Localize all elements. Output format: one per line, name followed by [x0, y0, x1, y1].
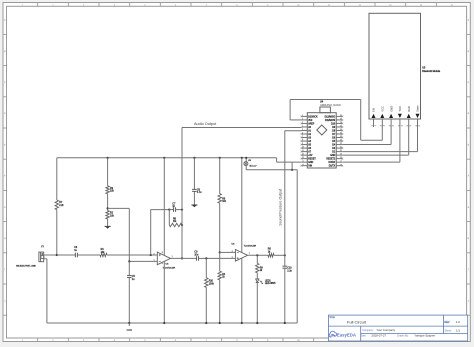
svg-text:Sound Pressure Output: Sound Pressure Output: [278, 189, 282, 226]
wire opamp1 V- pin4: [163, 262, 165, 324]
wire minus node to opamp2: [220, 251, 236, 253]
ground arrow divider: [105, 226, 111, 228]
svg-text:20: 20: [340, 150, 342, 152]
svg-text:2.2n: 2.2n: [287, 270, 292, 272]
svg-text:7: 7: [206, 340, 207, 342]
svg-text:1/1: 1/1: [456, 328, 460, 332]
junction loop right top: [181, 209, 183, 211]
wire C8 to gnd arrow: [193, 191, 195, 205]
op-amp U6B TLC072CDR: [232, 244, 257, 262]
svg-text:2: 2: [381, 125, 383, 126]
svg-text:3: 3: [393, 125, 395, 126]
wire opamp1 out to C9: [171, 257, 197, 259]
svg-text:8: 8: [237, 5, 238, 7]
capacitor C7: [169, 203, 182, 212]
junction jack row: [291, 169, 293, 171]
svg-text:5: 5: [145, 5, 146, 7]
wire C5 to gnd bus: [128, 278, 130, 324]
junction R9 node: [256, 254, 258, 256]
wire mic node to C6: [57, 254, 76, 256]
svg-text:Bluetooth Module: Bluetooth Module: [422, 70, 441, 73]
wire C6 to R4: [77, 254, 100, 256]
wire loop left vertical: [168, 210, 170, 225]
resistor R2: [106, 211, 115, 220]
svg-text:TXD: TXD: [398, 106, 402, 111]
svg-text:D12/MISO: D12/MISO: [325, 116, 336, 118]
wire R4 to opamp1 +: [107, 254, 157, 256]
svg-text:D11/MOSI: D11/MOSI: [325, 120, 336, 122]
svg-text:D13/SCK: D13/SCK: [308, 116, 318, 118]
junction minus node: [219, 251, 221, 253]
svg-text:10: 10: [297, 340, 299, 342]
wire R5 to minus node: [219, 203, 221, 252]
svg-text:J: J: [468, 300, 469, 302]
resistor R7: [55, 200, 64, 210]
svg-text:14: 14: [302, 161, 304, 163]
junction gnd bus r1: [219, 322, 221, 324]
wire BT State to D2: [342, 127, 417, 152]
svg-text:Sheet:: Sheet:: [445, 329, 453, 332]
junction opamp1 output: [181, 257, 183, 259]
svg-text:17: 17: [340, 161, 342, 163]
op-amp U6A TLC072CDR: [154, 252, 176, 269]
label Audio Output: [194, 122, 217, 126]
resistor R4: [100, 249, 107, 257]
ground symbol GND: [127, 323, 133, 332]
svg-text:GND: GND: [330, 155, 335, 157]
wire gnd drop from arduino: [291, 162, 293, 170]
resistor R9: [256, 263, 264, 272]
svg-text:GND: GND: [127, 329, 133, 332]
svg-text:6: 6: [416, 125, 418, 126]
svg-text:+5V: +5V: [308, 155, 313, 157]
svg-text:1.0: 1.0: [456, 320, 460, 324]
wire 3v3 loop: [290, 100, 382, 141]
ground arrow C8: [191, 205, 197, 207]
svg-text:Date:: Date:: [360, 335, 366, 338]
svg-text:1: 1: [22, 5, 23, 7]
junction node A: [205, 257, 207, 259]
svg-text:4.7u: 4.7u: [197, 192, 202, 194]
microphone Y1 MICELECTRET_SMD: [16, 247, 44, 268]
wire R9 node down: [256, 255, 258, 263]
svg-text:LED1: LED1: [265, 280, 272, 282]
svg-text:22: 22: [340, 143, 342, 145]
svg-text:MICELECTRET_SMD: MICELECTRET_SMD: [16, 265, 36, 267]
svg-text:RESET: RESET: [308, 159, 316, 161]
wire mic top pin: [44, 254, 57, 256]
LED LED1 LED-0805: [256, 279, 276, 285]
capacitor C10: [283, 266, 293, 272]
wire bus to R3: [107, 158, 109, 186]
wire R10 to gnd bus: [205, 288, 207, 324]
resistor R1: [218, 271, 226, 280]
svg-text:BU-4-?: BU-4-?: [250, 165, 258, 167]
svg-text:2: 2: [53, 340, 54, 342]
wire +node up: [151, 210, 170, 255]
svg-text:RXD: RXD: [407, 106, 411, 112]
svg-text:3: 3: [83, 5, 84, 7]
svg-text:100k: 100k: [209, 283, 215, 285]
svg-text:4: 4: [114, 340, 115, 342]
wire inverting node down: [128, 261, 130, 275]
wire R7 to mic node: [56, 210, 58, 255]
svg-text:2018-07-27: 2018-07-27: [372, 334, 387, 338]
svg-text:5: 5: [145, 340, 146, 342]
wire audio output horizontal: [182, 127, 302, 129]
svg-text:2: 2: [302, 119, 303, 121]
wire jack row: [246, 169, 297, 171]
wire C9 to node A: [199, 257, 236, 259]
capacitor C8: [192, 189, 202, 194]
svg-text:J: J: [4, 300, 5, 302]
svg-text:2: 2: [384, 125, 386, 126]
svg-text:6: 6: [175, 5, 176, 7]
junction gnd bus opamp2: [241, 322, 243, 324]
wire R1 to gnd bus: [219, 280, 221, 323]
svg-text:Yanique Spigner: Yanique Spigner: [414, 334, 435, 338]
svg-text:Your Company: Your Company: [376, 328, 395, 332]
svg-text:5: 5: [407, 125, 409, 126]
wire jack row down: [296, 170, 298, 323]
svg-text:1: 1: [372, 125, 374, 126]
wire opamp2 V- pin4: [241, 258, 243, 323]
svg-text:4: 4: [302, 126, 303, 128]
svg-text:TLC072CDR: TLC072CDR: [244, 245, 257, 247]
svg-text:D0/RX: D0/RX: [329, 162, 336, 164]
module U5 Bluetooth: [369, 13, 441, 127]
capacitor C6: [74, 247, 78, 257]
svg-text:1: 1: [375, 125, 377, 126]
wire opamp1 V+ pin8: [163, 158, 165, 255]
wire BT GND to D4: [342, 127, 391, 145]
junction inverting node: [128, 260, 130, 262]
svg-text:2: 2: [154, 260, 155, 262]
svg-text:3: 3: [390, 125, 392, 126]
svg-text:Full Circuit: Full Circuit: [347, 319, 367, 324]
junction gnd bus gnd: [128, 322, 130, 324]
svg-text:7: 7: [206, 5, 207, 7]
svg-text:13: 13: [389, 5, 391, 7]
junction bus opamp2 power: [241, 157, 243, 159]
wire SPO vertical: [284, 131, 286, 256]
svg-text:11: 11: [328, 5, 330, 7]
svg-text:4: 4: [114, 5, 115, 7]
svg-text:Company:: Company:: [362, 329, 374, 332]
junction gnd bus c10: [284, 322, 286, 324]
svg-text:5: 5: [302, 129, 303, 131]
svg-text:4: 4: [398, 125, 400, 126]
svg-text:1M: 1M: [173, 221, 176, 223]
junction bus R5: [219, 157, 221, 159]
wire SPO node to C10: [284, 255, 286, 266]
wire LED to gnd bus: [256, 283, 258, 324]
wire bus step down: [277, 158, 302, 162]
svg-text:8: 8: [162, 252, 163, 254]
svg-text:VCC: VCC: [381, 106, 385, 112]
svg-text:VIN: VIN: [308, 166, 312, 168]
junction bus C8: [193, 157, 195, 159]
junction divider mid: [107, 207, 109, 209]
svg-text:AREF: AREF: [308, 122, 315, 125]
wire divider mid to inverting input: [108, 208, 158, 261]
junction mic node: [56, 254, 58, 256]
svg-text:TITLE:: TITLE:: [329, 317, 335, 319]
junction gnd bus led: [256, 322, 258, 324]
wire C10 to gnd bus: [284, 268, 286, 323]
svg-text:8: 8: [237, 340, 238, 342]
svg-text:EasyEDA: EasyEDA: [337, 333, 356, 338]
svg-text:6: 6: [232, 251, 233, 253]
junction loop left: [168, 209, 170, 211]
svg-text:19: 19: [340, 154, 342, 156]
wire bus to R5: [219, 158, 221, 194]
svg-text:2: 2: [53, 5, 54, 7]
resistor R8: [169, 218, 182, 226]
resistor R10: [205, 278, 215, 288]
wire mic bottom pin: [44, 259, 47, 323]
wire bus to C8: [193, 158, 195, 190]
capacitor C9: [194, 252, 199, 261]
svg-text:REV: REV: [445, 321, 450, 324]
svg-text:6: 6: [175, 340, 176, 342]
junction bus-R3: [107, 157, 109, 159]
svg-text:15: 15: [451, 5, 453, 7]
wire left rail: [56, 158, 58, 200]
svg-text:4: 4: [162, 263, 163, 265]
wire BT TXD to D0: [342, 127, 400, 162]
logo EasyEDA: [329, 331, 356, 337]
svg-text:10: 10: [297, 5, 299, 7]
junction + input node: [150, 254, 152, 256]
svg-text:D1/TX: D1/TX: [329, 166, 336, 168]
wire R3 to mid: [107, 194, 109, 211]
resistor R6: [268, 249, 274, 257]
wire VCC bus: [57, 157, 277, 159]
resistor R3: [106, 186, 115, 194]
junction gnd bus opamp1: [163, 322, 165, 324]
svg-text:12: 12: [359, 5, 361, 7]
svg-text:C10: C10: [287, 268, 292, 270]
junction loop right bottom: [181, 224, 183, 226]
svg-text:Audio Output: Audio Output: [194, 122, 217, 126]
junction bus jack: [245, 157, 247, 159]
svg-text:Drawn By:: Drawn By:: [397, 335, 409, 338]
wire node A down: [205, 258, 207, 277]
wire R6 to SPO node: [274, 254, 285, 256]
title block: [328, 315, 467, 341]
svg-text:GND: GND: [308, 162, 313, 164]
wire R2 to gnd arrow: [107, 219, 109, 226]
svg-text:ARDUINO_NANO: ARDUINO_NANO: [320, 103, 341, 107]
svg-text:RESET2: RESET2: [326, 159, 336, 161]
svg-text:6: 6: [419, 125, 421, 126]
svg-text:State: State: [416, 105, 420, 112]
wire R9 to LED: [256, 273, 258, 279]
wire minus node down: [219, 252, 221, 271]
junction bus opamp1 power: [163, 157, 165, 159]
resistor R5: [218, 194, 227, 204]
capacitor C5: [127, 276, 135, 281]
svg-text:9: 9: [267, 5, 268, 7]
svg-text:4: 4: [401, 125, 403, 126]
IC U4 ARDUINO_NANO: [301, 101, 344, 168]
wire opamp2 out: [248, 254, 268, 256]
junction gnd bus r10: [205, 322, 207, 324]
audio jack U3: [244, 158, 257, 170]
svg-text:EN: EN: [372, 108, 376, 112]
label Sound Pressure Output: [278, 189, 282, 226]
svg-text:1: 1: [22, 340, 23, 342]
svg-text:5: 5: [410, 125, 412, 126]
junction SPO node: [284, 254, 286, 256]
svg-text:14: 14: [420, 5, 422, 7]
svg-text:GND: GND: [389, 106, 393, 112]
svg-text:R10: R10: [209, 281, 214, 283]
svg-text:3: 3: [154, 253, 155, 255]
wire GND bus: [47, 322, 297, 324]
wire SPO to A1: [285, 130, 302, 132]
wire BT RXD to GND: [342, 127, 408, 155]
svg-text:9: 9: [267, 340, 268, 342]
svg-text:5: 5: [232, 257, 233, 259]
svg-text:LED-0805: LED-0805: [265, 283, 276, 285]
svg-text:3: 3: [83, 340, 84, 342]
wire opamp2 V+ pin8: [241, 158, 243, 253]
wire audio output vertical: [181, 128, 183, 259]
